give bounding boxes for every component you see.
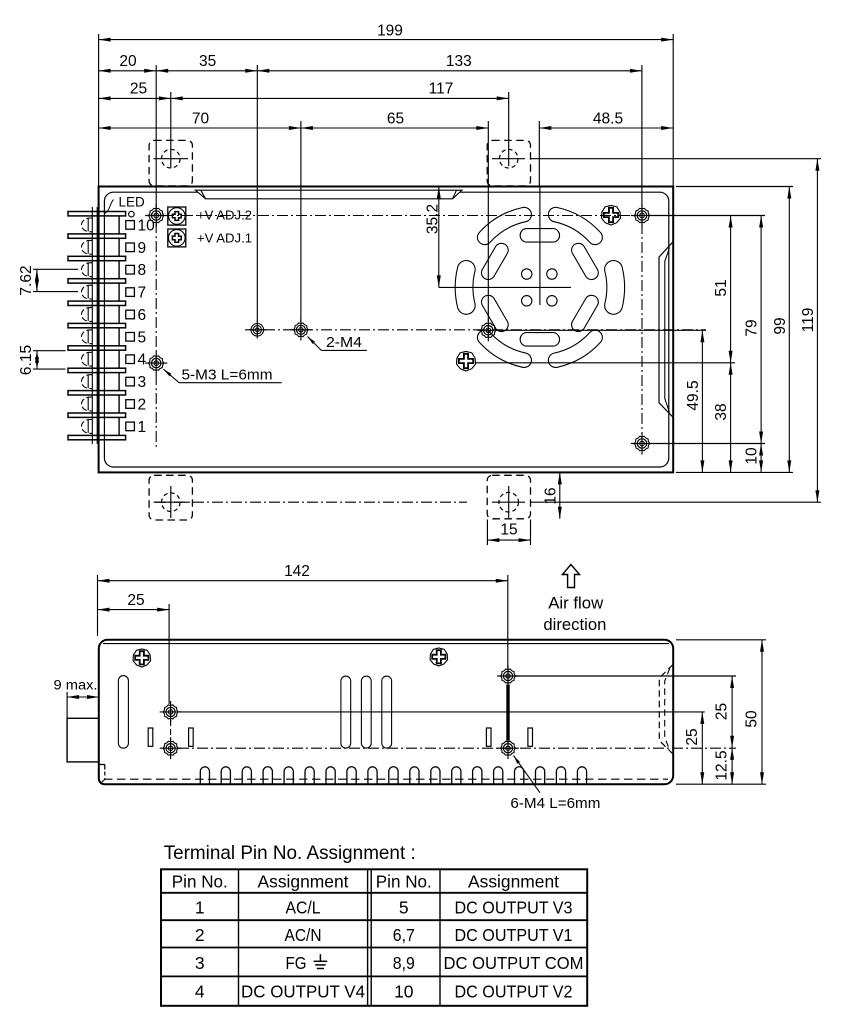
LED indicator [129,211,135,217]
svg-text:16: 16 [542,487,559,504]
ext line y=186.5 right [676,186,793,188]
side view: screw 6-M4 right lower (labelled) [501,741,516,755]
terminal 6 body edge [118,306,120,324]
bracket hole top-center [499,149,518,168]
mounting bracket bottom-left [149,475,192,520]
svg-text:1: 1 [195,897,205,917]
svg-text:50: 50 [744,710,761,728]
ext y=783.9 right side [676,783,766,785]
svg-text:2: 2 [195,925,205,945]
dashed link between left screws [170,720,172,740]
ext line y=362.8 right [475,362,735,364]
ext line x=673.2 [672,34,674,187]
terminal separator bar 8 [68,368,126,372]
hole 2-M4 right (threaded) [294,323,308,337]
dim 119 [816,159,818,503]
svg-text:DC OUTPUT V4: DC OUTPUT V4 [241,982,365,1002]
dim 142 [98,580,508,582]
dim 50 [761,640,763,784]
side view: screw 6-M4 left upper [163,705,178,719]
ext line x=156.2 [155,65,157,216]
terminal 8 body edge [118,261,120,279]
svg-text:6.15: 6.15 [18,345,35,375]
bracket hole bottom-center [499,492,519,512]
svg-text:15: 15 [500,522,517,539]
table column lines [238,869,240,1006]
side view: cover screw left [133,649,151,667]
ext x=169.1 side [168,604,170,704]
svg-text:10: 10 [394,982,414,1002]
label 5-M3 L=6mm [164,369,180,383]
svg-text:6-M4 L=6mm: 6-M4 L=6mm [510,795,600,812]
dim 35 [156,70,257,72]
dim 25 side right lower [701,712,703,784]
side view: bottom plate step [99,764,105,766]
screw M3 top-left (near ADJ) [149,208,164,222]
table frame [161,869,587,1006]
ext line y=158.7 right [531,158,821,160]
bold link between right screws [506,685,509,741]
label 2-M4 [308,337,322,351]
svg-text:1: 1 [138,419,147,436]
svg-text:Terminal Pin No. Assignment :: Terminal Pin No. Assignment : [164,842,416,864]
svg-text:25: 25 [684,728,701,745]
svg-text:25: 25 [130,81,147,98]
side view: top inner edge [103,643,669,645]
svg-text:Air flow: Air flow [548,594,604,613]
svg-text:AC/L: AC/L [286,897,321,917]
svg-text:DC OUTPUT V3: DC OUTPUT V3 [455,897,573,917]
svg-text:8: 8 [138,262,147,279]
side view: bottom hidden edge (dashed) [104,778,668,780]
svg-text:6: 6 [138,307,147,324]
terminal 2 body edge [118,395,120,413]
dim 70 [99,127,301,129]
screw 5-M3 (labelled) [149,356,164,370]
dim 16 [559,472,561,518]
svg-text:5-M3 L=6mm: 5-M3 L=6mm [182,367,273,384]
ext line x=539.3 (48.5) [538,121,540,187]
side view: screw 6-M4 left lower [163,741,178,755]
centerline vertical x=642 [641,223,643,434]
fan center crosshair [539,187,541,306]
svg-text:51: 51 [713,279,730,296]
terminal separator bar 5 [68,301,126,305]
terminal 2 screw [82,397,93,411]
terminal 7 pin square [126,288,135,297]
side view: screw 6-M4 right upper [501,669,516,683]
svg-text:133: 133 [446,53,472,70]
ext line x=98.6 [98,34,100,187]
svg-text:6,7: 6,7 [393,925,415,945]
terminal 5 screw [82,330,93,344]
svg-text:4: 4 [138,352,147,369]
svg-text:2-M4: 2-M4 [326,334,362,351]
svg-text:35.2: 35.2 [425,204,442,234]
svg-text:79: 79 [744,319,761,336]
svg-text:AC/N: AC/N [285,925,322,945]
svg-text:Pin No.: Pin No. [376,871,432,891]
ext line x=488.3 (65) [487,121,489,322]
mounting bracket bottom-center [487,475,530,519]
dim 51 [730,216,732,363]
svg-text:38: 38 [713,403,730,420]
terminal 9 pin square [126,243,135,252]
trimmer +V ADJ.2 [168,207,186,225]
svg-text:49.5: 49.5 [685,380,702,410]
ext line y=330.3 right [499,329,706,331]
terminal 1 screw [82,420,93,434]
bracket hole top-left [162,149,181,168]
terminal 4 pin square [126,355,135,364]
side view scallop vents [200,767,586,784]
LED leader [105,200,114,214]
svg-text:99: 99 [772,317,789,334]
svg-text:20: 20 [119,53,137,70]
centerline horizontal y=329.8 (2-M4 row) [245,329,706,331]
terminal 8 pin square [126,265,135,274]
svg-text:DC OUTPUT V1: DC OUTPUT V1 [455,925,573,945]
terminal 3 screw [82,375,93,389]
svg-text:25: 25 [714,703,731,720]
top view: inner lip [104,192,668,467]
svg-text:DC OUTPUT V2: DC OUTPUT V2 [455,982,573,1002]
hole 2-M4 left (plain) [251,324,264,337]
terminal 10 body edge [118,216,120,234]
ext y=639.4 right side [676,639,766,641]
svg-text:8,9: 8,9 [393,953,415,973]
centerline y=748.2 [178,747,736,749]
svg-text:3: 3 [138,374,147,391]
dim 99 [788,187,790,473]
terminal separator bar 9 [68,391,126,395]
screw M3 fan center-left [481,323,496,337]
terminal 3 pin square [126,377,135,386]
svg-text:48.5: 48.5 [593,110,623,127]
svg-text:Assignment: Assignment [258,871,349,891]
fan grille outer slots [605,261,625,315]
top cover seam strip [195,190,462,199]
terminal 4 screw [82,352,93,366]
dim 25 [99,97,171,99]
label 6-M4 L=6mm [514,756,540,793]
svg-text:9: 9 [138,240,147,257]
terminal 8 screw [82,263,93,277]
fan hub holes [522,269,532,279]
svg-text:35: 35 [199,53,216,70]
top view: chassis outline [99,187,674,473]
terminal separator bar 2 [68,234,126,238]
dim 10 [760,444,762,473]
terminal separator bar 10 [68,413,126,417]
fan grille inner slots [572,243,599,279]
svg-text:25: 25 [127,592,144,609]
side view: chassis outline [99,640,673,784]
terminal separator bar 11 [68,435,126,439]
terminal 3 body edge [118,373,120,391]
terminal 2 pin square [126,400,135,409]
terminal 5 pin square [126,333,135,342]
svg-text:DC OUTPUT COM: DC OUTPUT COM [444,953,584,973]
mounting bracket top-center [487,140,530,186]
dim 9 max [66,692,68,718]
terminal 5 body edge [118,328,120,346]
dim 48.5 [539,127,673,129]
svg-text:70: 70 [192,110,210,127]
terminal 9 screw [82,240,93,254]
svg-text:+V ADJ.1: +V ADJ.1 [197,231,252,246]
mounting bracket top-left [149,140,192,186]
svg-text:4: 4 [195,982,205,1002]
terminal separator bar 4 [68,279,126,283]
terminal 7 body edge [118,283,120,301]
ext x=507.8 side [507,575,509,668]
svg-text:LED: LED [119,195,146,210]
svg-text:3: 3 [195,953,205,973]
terminal separator bar 1 [68,212,126,216]
side view: terminal block profile [67,718,99,762]
centerline vertical x=156.2 lower [155,222,157,450]
dim 15 [486,520,488,546]
terminal 6 pin square [126,310,135,319]
table row lines [161,892,587,894]
screw M3 top-right [634,208,649,222]
dim 133 [257,70,642,72]
dim 20 [99,70,157,72]
ext x=97.5 side [97,575,99,636]
cover screw phillips top [602,205,621,225]
terminal separator bar 7 [68,346,126,350]
dim 79 [760,216,762,444]
dim 12.5 [731,748,733,785]
svg-text:199: 199 [377,23,403,40]
dim 199 [99,39,674,41]
side view: mounting feet pins [148,728,153,746]
ext line x=300.9 (70) [300,121,302,322]
terminal 1 body edge [118,418,120,436]
centerline horizontal y=215.5 [163,215,764,217]
ext line y=443.5 right [653,443,765,445]
svg-text:65: 65 [387,110,404,127]
svg-text:FG: FG [286,953,307,973]
svg-text:142: 142 [284,563,310,580]
svg-text:2: 2 [138,397,147,414]
svg-text:9 max.: 9 max. [54,678,98,693]
dim 25 side right upper [731,676,733,748]
ext line x=257.3 (35) [256,65,258,322]
air flow direction arrow [562,565,579,588]
dim 35.2 [438,187,440,288]
ext line x=508.7 (117) [508,92,510,166]
cover screw phillips lower-left of fan [457,351,476,371]
side view: right louver hidden (dashed) [659,665,673,755]
side view: cover screw middle [430,648,448,666]
screw M3 bottom-right [634,436,649,450]
svg-text:10: 10 [744,447,761,465]
svg-text:5: 5 [138,329,147,346]
svg-text:Pin No.: Pin No. [172,871,228,891]
svg-text:119: 119 [800,308,817,333]
terminal 10 pin square [126,221,135,230]
bracket hole bottom-left [162,493,181,512]
terminal 7 screw [82,285,93,299]
svg-text:117: 117 [429,81,454,98]
terminal 4 body edge [118,350,120,368]
terminal 6 screw [82,308,93,322]
svg-text:7.62: 7.62 [18,265,35,295]
dim 65 [301,127,488,129]
svg-text:Assignment: Assignment [468,871,559,891]
ext line y=472.4 right [676,471,793,473]
ref line y=711.9 [178,711,705,713]
terminal 9 body edge [118,238,120,256]
terminal 1 pin square [126,422,135,431]
dim 6.15 [33,350,66,352]
svg-text:5: 5 [399,897,409,917]
ext line y=215.5 right [653,215,765,217]
dim 25 side top [98,609,170,611]
FG earth symbol [319,954,321,961]
svg-text:12.5: 12.5 [714,750,731,780]
terminal 10 screw [82,218,93,232]
side view: middle vent slots [341,676,351,748]
ref line y=676 [516,675,737,677]
svg-text:10: 10 [138,217,156,234]
svg-text:7: 7 [138,285,147,302]
side view: left slot [118,676,128,749]
centerline y=502.2 between bottom brackets [155,501,467,503]
trimmer +V ADJ.1 [168,229,186,247]
dim 38 [730,363,732,473]
dim 7.62 [33,268,78,270]
terminal separator bar 6 [68,323,126,327]
dim 117 [171,97,509,99]
right side louver (top view) [659,242,673,417]
dim 49.5 [701,330,703,472]
ext line x=641.9 (133) [641,65,643,207]
svg-text:direction: direction [543,615,606,634]
ext line y=502.2 right [531,501,821,503]
terminal separator bar 3 [68,256,126,260]
ext line x=170.8 (25) [170,92,172,168]
terminal block left side [91,207,93,444]
